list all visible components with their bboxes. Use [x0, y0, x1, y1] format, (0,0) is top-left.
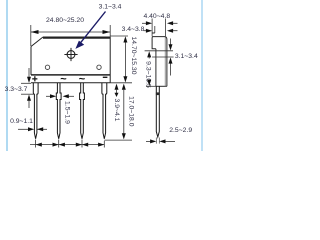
small circle right	[97, 65, 101, 69]
lead length dimension 17.0~18.0	[104, 84, 134, 141]
height dimension 14.70~15.30	[110, 36, 137, 83]
shoulder dimension 3.9~4.1	[113, 84, 120, 122]
svg-text:3.9~4.1: 3.9~4.1	[113, 99, 120, 122]
side lead width dim 2.5~2.9	[146, 127, 192, 143]
svg-text:2.5~2.9: 2.5~2.9	[169, 127, 192, 134]
pin 2 (with mid bump)	[56, 83, 61, 139]
svg-text:3.4~3.8: 3.4~3.8	[122, 26, 145, 33]
side view top extension lines	[152, 19, 165, 37]
front body bottom strip	[31, 75, 110, 83]
width dimension 24.80~25.20	[31, 17, 110, 46]
pitch arrowheads	[36, 143, 105, 147]
pin pitch dimension row	[30, 140, 104, 148]
right table border	[201, 0, 203, 151]
svg-text:0.9~1.1: 0.9~1.1	[10, 118, 33, 125]
side view thickness dim 4.40~4.8	[142, 13, 178, 25]
strip bottom extension to right	[110, 82, 132, 84]
terminal marking tilde 1	[60, 74, 67, 86]
lead bump dimension 1.5~1.9	[46, 94, 74, 124]
pin 4 (with shoulder)	[102, 83, 107, 139]
pin 3 (with mid bump)	[80, 83, 85, 139]
side lead bump dark	[156, 92, 160, 95]
side view hole lines	[145, 51, 174, 57]
svg-text:3.1~3.4: 3.1~3.4	[175, 53, 198, 60]
svg-text:4.40~4.8: 4.40~4.8	[143, 13, 170, 20]
svg-text:17.0~18.0: 17.0~18.0	[128, 96, 135, 127]
terminal marking plus	[32, 76, 37, 81]
side view body dim 3.4~3.8	[122, 26, 178, 33]
lead width dimension 0.9~1.1	[10, 118, 47, 131]
svg-text:3.3~3.7: 3.3~3.7	[5, 86, 28, 93]
side lead	[156, 86, 159, 143]
side view body outline	[152, 33, 167, 86]
front view body outline	[31, 37, 110, 83]
left table border	[6, 0, 8, 151]
terminal marking tilde 2	[79, 74, 86, 86]
svg-text:3.1~3.4: 3.1~3.4	[99, 4, 122, 11]
svg-text:~: ~	[60, 74, 67, 86]
side dim 9.3~10.5	[145, 51, 156, 88]
svg-text:1.5~1.9: 1.5~1.9	[63, 101, 70, 124]
pin 1 (with shoulder)	[33, 83, 38, 139]
mounting hole crosshair	[64, 48, 77, 61]
small circle left	[45, 65, 49, 69]
terminal marking minus	[103, 77, 108, 78]
hole dia leader 3.1~3.4	[75, 4, 121, 49]
svg-text:9.3~10.5: 9.3~10.5	[145, 61, 152, 88]
side hole dim 3.1~3.4	[169, 39, 198, 76]
left dimension 3.3~3.7	[5, 68, 34, 108]
svg-text:24.80~25.20: 24.80~25.20	[46, 17, 84, 24]
svg-text:~: ~	[79, 74, 86, 86]
svg-text:14.70~15.30: 14.70~15.30	[130, 37, 137, 75]
